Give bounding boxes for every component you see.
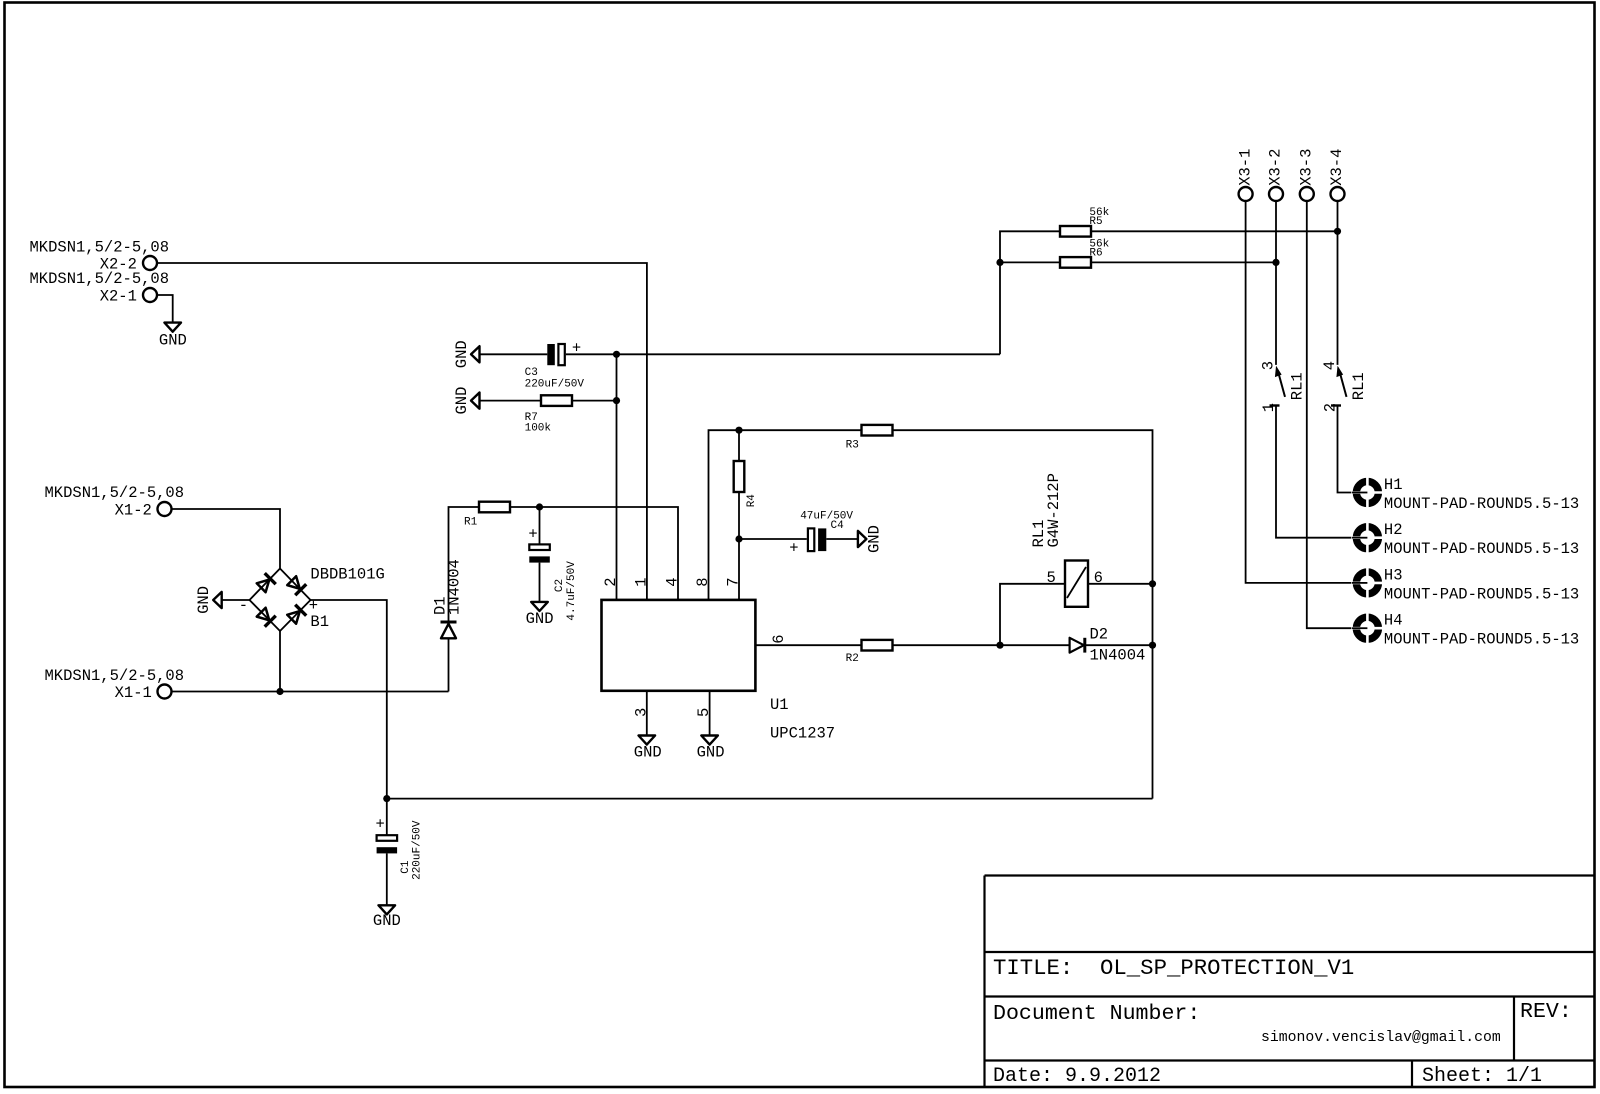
mount pad H4 bbox=[1351, 612, 1579, 649]
svg-text:Date: 9.9.2012: Date: 9.9.2012 bbox=[993, 1065, 1161, 1088]
svg-text:R5: R5 bbox=[1089, 216, 1102, 228]
svg-text:R1: R1 bbox=[464, 516, 478, 528]
svg-text:MKDSN1,5/2-5,08: MKDSN1,5/2-5,08 bbox=[45, 484, 185, 502]
svg-text:MOUNT-PAD-ROUND5.5-13: MOUNT-PAD-ROUND5.5-13 bbox=[1384, 585, 1579, 603]
wire R7 to pin 2 line bbox=[572, 400, 617, 402]
wire junction down to C2 bbox=[539, 507, 541, 546]
svg-text:RL1: RL1 bbox=[1289, 372, 1307, 400]
junction riser / R6 bbox=[996, 259, 1003, 266]
svg-text:GND: GND bbox=[159, 331, 187, 349]
svg-text:MKDSN1,5/2-5,08: MKDSN1,5/2-5,08 bbox=[30, 238, 170, 256]
resistor R3 bbox=[846, 425, 893, 452]
wire C2 to ground bbox=[539, 563, 541, 602]
diode bottom-left of bridge bbox=[256, 607, 276, 627]
wire R1 to U1 pin 4 bbox=[510, 507, 678, 599]
svg-text:X1-2: X1-2 bbox=[115, 501, 152, 519]
wire R4 to U1 pin 7 bbox=[738, 492, 740, 599]
wire ground to R7 bbox=[480, 400, 542, 402]
bridge rectifier B1 DBDB101G bbox=[239, 565, 385, 631]
ground symbol right of C4 bbox=[858, 525, 884, 553]
svg-text:4: 4 bbox=[664, 577, 682, 586]
svg-text:6: 6 bbox=[770, 634, 788, 643]
svg-text:X2-1: X2-1 bbox=[100, 288, 137, 306]
relay contact RL1 4-2 bbox=[1321, 361, 1368, 412]
ground symbol below C2 bbox=[526, 602, 554, 628]
wire relay coil to right riser bbox=[1088, 583, 1153, 585]
svg-text:GND: GND bbox=[526, 610, 554, 628]
svg-text:R6: R6 bbox=[1089, 247, 1102, 259]
svg-text:1N4004: 1N4004 bbox=[1090, 647, 1146, 665]
svg-text:Document Number:: Document Number: bbox=[993, 1002, 1200, 1026]
svg-text:GND: GND bbox=[453, 340, 471, 368]
junction R1 / C2 bbox=[536, 503, 543, 510]
resistor R2 bbox=[846, 640, 893, 665]
U1 pin 6 wire bbox=[755, 644, 861, 646]
diode D1 1N4004 bbox=[432, 559, 464, 691]
connector X1-1 bbox=[45, 667, 185, 702]
ground symbol below pin 3 bbox=[634, 736, 662, 762]
U1 pin 3 wire bbox=[646, 691, 648, 736]
svg-text:X3-3: X3-3 bbox=[1298, 149, 1316, 186]
ground symbol below C1 bbox=[373, 905, 401, 930]
junction R6 / X3-2 bbox=[1272, 259, 1279, 266]
svg-text:X3-1: X3-1 bbox=[1236, 149, 1254, 186]
svg-text:7: 7 bbox=[725, 577, 743, 586]
svg-text:220uF/50V: 220uF/50V bbox=[412, 820, 424, 880]
wire junction to C4 bbox=[739, 538, 807, 540]
junction pin 7 / C4 bbox=[735, 535, 742, 542]
svg-text:G4W-212P: G4W-212P bbox=[1045, 473, 1063, 547]
junction R5 / X3-4 bbox=[1334, 228, 1341, 235]
svg-text:H4: H4 bbox=[1384, 612, 1403, 630]
svg-text:2: 2 bbox=[602, 577, 620, 586]
svg-text:B1: B1 bbox=[310, 613, 329, 631]
junction bottom rail at C1 bbox=[383, 795, 390, 802]
wire R2 to D2 bbox=[893, 644, 1070, 646]
svg-text:X3-4: X3-4 bbox=[1328, 149, 1346, 186]
capacitor C1 220uF/50V bbox=[376, 816, 424, 880]
wire C1 to ground bbox=[386, 853, 388, 905]
svg-text:R4: R4 bbox=[746, 494, 758, 508]
svg-text:GND: GND bbox=[866, 525, 884, 553]
svg-text:R3: R3 bbox=[846, 440, 859, 452]
wire contact 2 to H1 bbox=[1338, 406, 1354, 493]
junction R7 / U1 pin 2 bbox=[613, 397, 620, 404]
connector X2-2 bbox=[30, 238, 170, 273]
relay contact RL1 3-1 bbox=[1260, 361, 1307, 412]
junction D2 / right riser bbox=[1149, 642, 1156, 649]
diode bottom-right of bridge bbox=[286, 605, 306, 625]
wire D2 to right riser bbox=[1086, 644, 1153, 646]
wire X3-3 to H4 bbox=[1307, 202, 1354, 629]
wire X3-1 to H3 bbox=[1246, 202, 1354, 583]
wire R5 to X3-4 line bbox=[1091, 230, 1338, 232]
svg-text:4: 4 bbox=[1321, 361, 1339, 370]
connector X2-1 bbox=[30, 270, 170, 305]
mount pad H3 bbox=[1351, 566, 1579, 603]
svg-text:47uF/50V: 47uF/50V bbox=[800, 510, 853, 522]
svg-text:REV:: REV: bbox=[1520, 1000, 1572, 1024]
svg-text:GND: GND bbox=[634, 744, 662, 762]
svg-text:MOUNT-PAD-ROUND5.5-13: MOUNT-PAD-ROUND5.5-13 bbox=[1384, 540, 1579, 558]
svg-text:GND: GND bbox=[697, 744, 725, 762]
U1 pin 5 wire bbox=[709, 691, 711, 736]
svg-text:C4: C4 bbox=[831, 520, 845, 532]
svg-text:C1: C1 bbox=[400, 860, 412, 874]
capacitor C2 4.7uF/50V bbox=[528, 526, 578, 621]
mount pad H2 bbox=[1351, 521, 1579, 558]
svg-text:5: 5 bbox=[1047, 569, 1056, 587]
connector X3-4 bbox=[1328, 149, 1346, 201]
diode top-left of bridge bbox=[256, 573, 276, 593]
ground symbol below X2-1 bbox=[159, 323, 187, 350]
wire D1 cathode to R1 bbox=[449, 507, 480, 621]
R5/R6 riser wire bbox=[1000, 231, 1060, 354]
resistor R4 bbox=[734, 461, 758, 507]
svg-text:5: 5 bbox=[695, 708, 713, 717]
U1 pin 8 wire up to R3 row bbox=[709, 430, 862, 599]
capacitor C4 47uF/50V bbox=[789, 510, 853, 557]
svg-text:+: + bbox=[376, 816, 385, 834]
svg-text:H1: H1 bbox=[1384, 476, 1403, 494]
svg-text:H3: H3 bbox=[1384, 566, 1403, 584]
wire X3-2 to contact bbox=[1275, 202, 1277, 365]
wire X1-2 to bridge top bbox=[172, 509, 280, 569]
wire X3-4 to contact bbox=[1337, 202, 1339, 365]
svg-text:3: 3 bbox=[632, 708, 650, 717]
title block outline bbox=[985, 876, 1594, 1087]
resistor R1 bbox=[464, 502, 510, 529]
svg-text:GND: GND bbox=[195, 586, 213, 614]
svg-text:UPC1237: UPC1237 bbox=[770, 725, 835, 743]
junction relay / right riser bbox=[1149, 580, 1156, 587]
wire riser to R6 bbox=[1000, 261, 1060, 263]
svg-text:8: 8 bbox=[694, 577, 712, 586]
bottom rail wire bbox=[387, 798, 1153, 800]
wire X2-1 to ground bbox=[158, 295, 173, 322]
svg-text:4.7uF/50V: 4.7uF/50V bbox=[566, 561, 578, 621]
svg-text:H2: H2 bbox=[1384, 521, 1403, 539]
U1 pin 2 wire bbox=[616, 354, 618, 599]
svg-text:DBDB101G: DBDB101G bbox=[310, 565, 384, 583]
svg-text:1: 1 bbox=[633, 577, 651, 586]
svg-text:220uF/50V: 220uF/50V bbox=[525, 379, 585, 391]
wire C3 to R5/R6 riser bbox=[566, 353, 1000, 355]
svg-text:3: 3 bbox=[1260, 361, 1278, 370]
junction bridge bottom / X1-1 bbox=[276, 688, 283, 695]
IC U1 UPC1237 bbox=[602, 600, 836, 743]
wire C4 to ground bbox=[826, 538, 857, 540]
svg-text:X3-2: X3-2 bbox=[1267, 149, 1285, 186]
svg-text:MKDSN1,5/2-5,08: MKDSN1,5/2-5,08 bbox=[30, 270, 170, 288]
svg-text:D2: D2 bbox=[1090, 626, 1109, 644]
mount pad H1 bbox=[1351, 476, 1579, 513]
ground symbol left of R7 bbox=[453, 387, 480, 415]
svg-text:X1-1: X1-1 bbox=[115, 684, 152, 702]
svg-text:TITLE: OL_SP_PROTECTION_V1: TITLE: OL_SP_PROTECTION_V1 bbox=[993, 955, 1354, 981]
wire X2-2 to U1 pin 1 bbox=[158, 263, 647, 599]
wire bridge minus to ground bbox=[222, 599, 250, 601]
svg-text:100k: 100k bbox=[525, 423, 552, 435]
svg-text:simonov.vencislav@gmail.com: simonov.vencislav@gmail.com bbox=[1261, 1030, 1501, 1046]
svg-text:+: + bbox=[528, 526, 537, 544]
resistor R5 56k bbox=[1060, 207, 1110, 236]
wire relay branch bbox=[1000, 584, 1065, 645]
svg-text:+: + bbox=[789, 540, 798, 558]
svg-text:MKDSN1,5/2-5,08: MKDSN1,5/2-5,08 bbox=[45, 667, 185, 685]
wire R6 to X3-2 line bbox=[1091, 261, 1276, 263]
junction R2 wire / relay branch bbox=[996, 642, 1003, 649]
wire R3 row to R4 bbox=[738, 430, 740, 461]
resistor R7 100k bbox=[525, 395, 572, 434]
connector X3-1 bbox=[1236, 149, 1254, 201]
svg-text:U1: U1 bbox=[770, 696, 789, 714]
ground symbol below pin 5 bbox=[697, 736, 725, 762]
svg-text:RL1: RL1 bbox=[1350, 372, 1368, 400]
diode top-right of bridge bbox=[286, 575, 306, 595]
svg-text:MOUNT-PAD-ROUND5.5-13: MOUNT-PAD-ROUND5.5-13 bbox=[1384, 631, 1579, 649]
capacitor C3 220uF/50V bbox=[525, 340, 585, 391]
svg-text:C2: C2 bbox=[554, 579, 566, 592]
wire X1-1 to D1 anode bbox=[172, 691, 449, 693]
svg-text:Sheet: 1/1: Sheet: 1/1 bbox=[1422, 1065, 1542, 1088]
svg-text:C3: C3 bbox=[525, 367, 538, 379]
ground symbol at bridge minus bbox=[195, 586, 222, 614]
ground symbol left of C3 bbox=[453, 340, 480, 368]
wire ground to C3 bbox=[480, 353, 548, 355]
junction R3 row / R4 bbox=[735, 427, 742, 434]
relay coil RL1 G4W-212P bbox=[1030, 473, 1103, 607]
wire R3 to right riser bbox=[893, 430, 1153, 798]
wire bridge bottom to X1-1 wire bbox=[279, 631, 281, 692]
svg-text:MOUNT-PAD-ROUND5.5-13: MOUNT-PAD-ROUND5.5-13 bbox=[1384, 495, 1579, 513]
svg-text:R2: R2 bbox=[846, 653, 859, 665]
junction C3 wire / U1 pin 2 bbox=[613, 351, 620, 358]
wire bridge plus down to bottom rail bbox=[311, 600, 387, 836]
resistor R6 56k bbox=[1060, 239, 1110, 268]
svg-text:GND: GND bbox=[453, 387, 471, 415]
connector X1-2 bbox=[45, 484, 185, 519]
diode D2 1N4004 bbox=[1070, 626, 1146, 665]
wire contact 1 to H2 bbox=[1276, 406, 1354, 538]
svg-text:GND: GND bbox=[373, 912, 401, 930]
connector X3-3 bbox=[1298, 149, 1316, 201]
connector X3-2 bbox=[1267, 149, 1285, 201]
